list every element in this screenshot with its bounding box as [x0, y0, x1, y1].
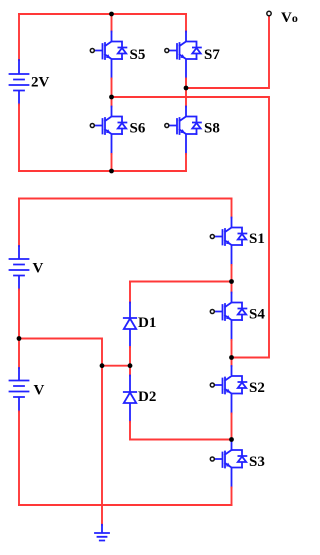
wire left rail top circuit lower [18, 105, 20, 172]
wire stub to diode midpoint [102, 365, 130, 367]
wire S4 collector feed [231, 282, 233, 293]
wire S5 emitter to node A [111, 79, 113, 98]
wire bottom rail of H-bridge [19, 170, 186, 172]
svg-text:S6: S6 [130, 121, 146, 137]
wire left rail to V1 [18, 199, 20, 247]
transistor S3 [210, 450, 246, 488]
wire S5 collector feed [111, 14, 113, 32]
wire D1 cathode feed [129, 282, 131, 303]
terminal Vo [267, 11, 271, 15]
wire S6 collector feed [111, 97, 113, 107]
diode D1 [124, 303, 136, 348]
wire S2 emitter to node D [231, 414, 233, 440]
transistor S7 [165, 32, 201, 79]
wire top rail of H-bridge [19, 13, 186, 15]
node D junction [229, 437, 234, 442]
wire S3 emitter to bottom rail [231, 488, 233, 506]
wire left rail top circuit upper [18, 14, 20, 60]
diode D2 [124, 376, 136, 422]
svg-text:2V: 2V [31, 75, 50, 91]
wire S2 collector feed [231, 358, 233, 367]
transistor S4 [210, 293, 246, 341]
svg-text:S7: S7 [204, 47, 220, 63]
transistor S2 [210, 366, 246, 414]
wire node C to D1 [130, 281, 232, 283]
battery V2 [10, 368, 29, 412]
svg-text:D2: D2 [138, 389, 156, 405]
transistor S8 [165, 107, 201, 155]
ground [95, 525, 109, 541]
node C junction [229, 279, 234, 284]
wire node B to Vo [186, 16, 269, 88]
wire midpoint to V2 [18, 339, 20, 369]
svg-text:S8: S8 [204, 121, 220, 137]
wire S7 collector feed [185, 14, 187, 32]
wire V2 minus to bottom rail [18, 412, 20, 506]
wire S8 collector feed [185, 88, 187, 107]
battery B1 2V [10, 60, 29, 105]
wire S6 emitter to bottom rail [111, 154, 113, 171]
junction neutral / diode stub [100, 363, 105, 368]
wire S3 collector feed [231, 440, 233, 451]
svg-text:S2: S2 [249, 380, 265, 396]
wire S4 emitter to node E [231, 340, 233, 358]
junction bottom rail / S6 [109, 169, 114, 174]
wire top rail of lower stage [19, 198, 232, 200]
node E junction [229, 355, 234, 360]
wire S1 collector feed [231, 199, 233, 218]
svg-text:S5: S5 [130, 47, 146, 63]
svg-text:S3: S3 [249, 454, 265, 470]
svg-text:V: V [33, 261, 44, 277]
svg-text:S1: S1 [249, 231, 265, 247]
junction battery midpoint [17, 336, 22, 341]
svg-text:Vo: Vo [281, 10, 298, 26]
battery V1 [10, 246, 29, 290]
svg-text:D1: D1 [138, 315, 156, 331]
wire D1 anode to diode midpoint [129, 347, 131, 366]
wire diode midpoint to D2 [129, 366, 131, 376]
svg-text:S4: S4 [249, 307, 265, 323]
node B junction [184, 86, 189, 91]
wire bottom rail of lower stage [19, 504, 232, 506]
transistor S5 [90, 32, 126, 79]
transistor S1 [210, 218, 246, 266]
node A junction [109, 95, 114, 100]
wire node A to riser [112, 97, 270, 358]
wire S1 emitter to node C [231, 265, 233, 282]
wire V1 minus to midpoint [18, 290, 20, 339]
wire midpoint to neutral column [19, 339, 102, 525]
svg-text:V: V [34, 383, 45, 399]
wire S7 emitter to node B [185, 79, 187, 89]
junction top rail / S5 [109, 12, 114, 17]
junction diode midpoint [128, 363, 133, 368]
wire S8 emitter to bottom rail [185, 154, 187, 171]
wire D2 anode to node D [130, 422, 232, 440]
transistor S6 [90, 107, 126, 155]
